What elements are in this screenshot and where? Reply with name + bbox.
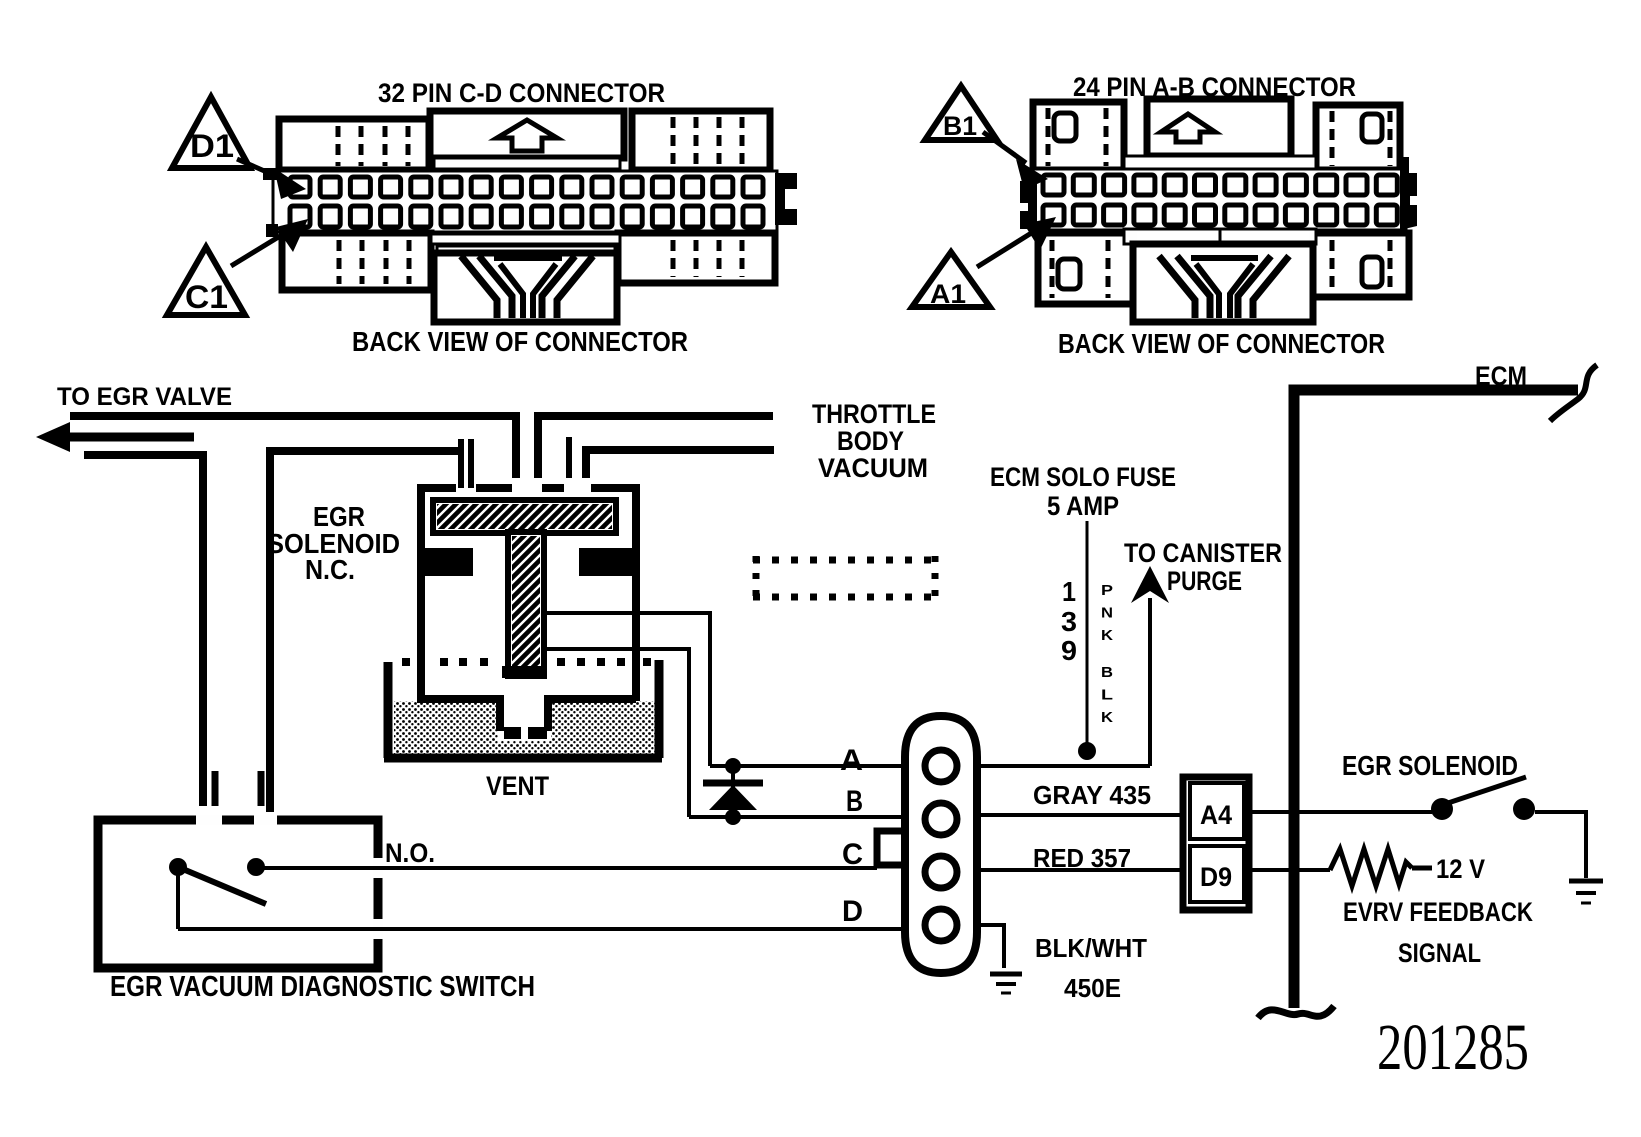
svg-text:P: P xyxy=(1101,582,1113,599)
resistor (EVRV feedback) xyxy=(1330,849,1432,886)
wire B segment xyxy=(689,815,905,819)
wire from left contact down xyxy=(176,867,180,929)
EGR solenoid valve body (cross-section) xyxy=(417,484,640,739)
label: THROTTLE BODY VACUUM xyxy=(812,399,936,483)
svg-text:D9: D9 xyxy=(1200,862,1232,892)
svg-text:BACK VIEW OF CONNECTOR: BACK VIEW OF CONNECTOR xyxy=(1058,328,1385,359)
lower pipe to diagnostic switch xyxy=(84,455,203,806)
figure number 201285 xyxy=(1377,1011,1529,1084)
svg-text:EGR VACUUM DIAGNOSTIC SWITCH: EGR VACUUM DIAGNOSTIC SWITCH xyxy=(110,971,535,1003)
pipe stub wall (enclosure pipe) xyxy=(258,771,265,806)
strain relief (32-pin) xyxy=(431,234,620,322)
leader arrow from C1 to pin row C xyxy=(231,219,308,266)
svg-text:B1: B1 xyxy=(943,111,977,141)
break squiggle (top) xyxy=(1550,365,1597,421)
wire C (N.O. contact to connector) xyxy=(256,866,877,870)
connector cavity C xyxy=(925,856,957,888)
label: TO EGR VALVE xyxy=(57,383,232,411)
callout triangle B1 xyxy=(925,86,997,141)
label N.O. xyxy=(385,838,435,868)
svg-text:201285: 201285 xyxy=(1377,1011,1529,1084)
solenoid enclosure wall / pipe xyxy=(270,451,458,820)
wire number 139 xyxy=(1061,576,1077,666)
right port stub wall xyxy=(566,437,572,478)
pin label C xyxy=(842,838,863,871)
solenoid coil blocks xyxy=(420,548,637,576)
title: 24 PIN A-B CONNECTOR xyxy=(1073,72,1356,102)
connector cavity A xyxy=(925,750,957,782)
wire from solenoid coil to pin A xyxy=(545,613,710,766)
ground G1 (connector) xyxy=(990,974,1022,993)
ECM terminal block A4/D9 xyxy=(1183,777,1249,910)
throttle body vacuum pipe (lower line) xyxy=(586,450,774,478)
connector J1 32-pin C-D back view body xyxy=(263,111,797,290)
break squiggle (bottom) xyxy=(1258,1006,1334,1018)
pin label A xyxy=(840,744,863,777)
svg-text:A1: A1 xyxy=(930,279,966,309)
connector cavity D xyxy=(925,909,957,941)
switch S2 contact (right) xyxy=(247,858,265,876)
label: EGR SOLENOID xyxy=(1342,750,1518,781)
svg-text:12 V: 12 V xyxy=(1436,854,1485,884)
svg-text:A: A xyxy=(840,744,863,777)
svg-text:BODY: BODY xyxy=(837,426,904,456)
svg-text:BACK VIEW OF CONNECTOR: BACK VIEW OF CONNECTOR xyxy=(352,326,688,357)
svg-text:EVRV FEEDBACK: EVRV FEEDBACK xyxy=(1343,897,1533,927)
svg-text:THROTTLE: THROTTLE xyxy=(812,399,936,429)
canister purge line with up arrow xyxy=(1131,566,1169,766)
svg-text:GRAY 435: GRAY 435 xyxy=(1033,780,1151,810)
wire switch to ground xyxy=(1535,812,1586,878)
svg-text:RED 357: RED 357 xyxy=(1033,843,1131,873)
svg-text:1: 1 xyxy=(1062,576,1076,607)
svg-text:A4: A4 xyxy=(1200,800,1232,830)
callout triangle A1 xyxy=(912,252,990,309)
callout triangle D1 xyxy=(172,97,250,168)
svg-text:ECM SOLO FUSE: ECM SOLO FUSE xyxy=(990,462,1176,492)
leader arrow from A1 to pin row A xyxy=(977,217,1056,267)
svg-text:3: 3 xyxy=(1061,606,1077,637)
fuse feed wire 139 PNK/BLK xyxy=(1078,521,1096,760)
label EVRV FEEDBACK SIGNAL xyxy=(1343,897,1533,968)
title: 32 PIN C-D CONNECTOR xyxy=(378,78,665,108)
wire D9 to resistor xyxy=(1249,868,1330,872)
label: ECM SOLO FUSE 5 AMP xyxy=(990,462,1176,521)
label: VENT xyxy=(486,771,549,801)
label: TO CANISTER PURGE xyxy=(1124,538,1282,596)
svg-text:K: K xyxy=(1101,709,1113,726)
svg-text:K: K xyxy=(1101,627,1113,644)
svg-text:N.C.: N.C. xyxy=(305,554,355,585)
svg-text:N.O.: N.O. xyxy=(385,838,435,868)
arrow-up keying symbol in 24-pin connector xyxy=(1161,114,1215,142)
svg-text:EGR SOLENOID: EGR SOLENOID xyxy=(1342,750,1518,781)
wire D (common contact to connector) xyxy=(178,927,905,931)
svg-text:TO EGR VALVE: TO EGR VALVE xyxy=(57,383,232,411)
label: EGR SOLENOID N.C. xyxy=(267,501,400,585)
svg-text:B: B xyxy=(846,785,863,818)
wire RED 357 xyxy=(977,843,1183,873)
wire A (solenoid to connector) xyxy=(710,764,905,768)
svg-text:32 PIN C-D CONNECTOR: 32 PIN C-D CONNECTOR xyxy=(378,78,665,108)
svg-text:D1: D1 xyxy=(190,128,234,164)
connector J2 24-pin A-B back view body xyxy=(1020,99,1417,304)
label BLK/WHT 450E xyxy=(1035,933,1147,1003)
svg-text:D: D xyxy=(842,895,863,928)
pin label D xyxy=(842,895,863,928)
diode across solenoid coil xyxy=(703,758,763,825)
label 12 V xyxy=(1436,854,1485,884)
svg-text:B: B xyxy=(1101,664,1113,681)
vent tray xyxy=(384,660,662,758)
vacuum pipe to EGR valve (upper line) xyxy=(70,416,516,478)
EGR vacuum diagnostic switch box xyxy=(98,812,385,968)
arrow-up keying symbol in 32-pin connector xyxy=(497,120,557,151)
svg-text:PURGE: PURGE xyxy=(1167,566,1242,596)
connector cavity B xyxy=(925,803,957,835)
caption: BACK VIEW OF CONNECTOR (right) xyxy=(1058,328,1385,359)
strain relief (24-pin) xyxy=(1133,244,1313,322)
svg-text:VACUUM: VACUUM xyxy=(818,453,928,483)
label ECM xyxy=(1475,361,1527,391)
caption: BACK VIEW OF CONNECTOR (left) xyxy=(352,326,688,357)
ground G2 (switch) xyxy=(1569,881,1603,903)
svg-text:SIGNAL: SIGNAL xyxy=(1398,938,1481,968)
svg-text:9: 9 xyxy=(1061,635,1077,666)
C terminal box xyxy=(877,831,907,865)
diaphragm dotted line xyxy=(402,658,651,666)
svg-text:BLK/WHT: BLK/WHT xyxy=(1035,933,1147,963)
arrow to EGR valve xyxy=(36,422,194,452)
svg-text:C1: C1 xyxy=(185,279,228,315)
solenoid left port stub xyxy=(461,439,471,488)
wire GRAY 435 xyxy=(977,780,1183,815)
wire from solenoid coil to pin B xyxy=(545,649,689,817)
pipe stub wall (left pipe) xyxy=(212,771,219,806)
pin label B xyxy=(846,785,863,818)
4-pin connector capsule xyxy=(905,716,977,973)
svg-text:ECM: ECM xyxy=(1475,361,1527,391)
svg-text:L: L xyxy=(1101,687,1113,704)
wire BLK/WHT 450E to ground xyxy=(977,925,1004,968)
wire color PNK BLK (vertical) xyxy=(1101,582,1113,726)
ECM boundary line xyxy=(1294,390,1578,1008)
label: EGR VACUUM DIAGNOSTIC SWITCH xyxy=(110,971,535,1003)
wire A4 to switch xyxy=(1249,810,1432,814)
solenoid plunger stem (hatched) xyxy=(502,532,546,678)
wire A right segment to purge tee xyxy=(977,764,1150,768)
switch S2 blade (open) xyxy=(178,867,266,904)
svg-text:5 AMP: 5 AMP xyxy=(1047,491,1119,521)
leader arrow from B1 to pin row B xyxy=(983,132,1048,190)
svg-text:N: N xyxy=(1101,605,1113,622)
svg-text:TO CANISTER: TO CANISTER xyxy=(1124,538,1282,568)
switch S1 (EGR solenoid driver) xyxy=(1431,777,1535,820)
leader arrow from D1 to pin row D xyxy=(237,159,306,199)
center inlet pipe from EGR valve line xyxy=(538,416,773,478)
svg-text:450E: 450E xyxy=(1064,973,1121,1003)
switch S2 contact (left) xyxy=(169,858,187,876)
svg-text:VENT: VENT xyxy=(486,771,549,801)
solenoid armature plate (hatched) xyxy=(433,500,616,533)
dotted separator box xyxy=(753,556,938,601)
callout triangle C1 xyxy=(167,247,245,315)
